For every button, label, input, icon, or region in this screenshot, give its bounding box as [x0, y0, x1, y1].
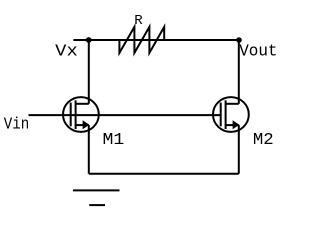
- wire M1 source vertical down: [88, 125, 90, 174]
- svg-text:M2: M2: [253, 131, 274, 150]
- svg-text:Vin: Vin: [4, 115, 30, 134]
- node Vx junction dot: [86, 37, 92, 43]
- wire M2 source vertical down: [238, 125, 240, 174]
- wire top net: Vx stub through R to Vout corner: [73, 39, 239, 41]
- svg-text:Vx: Vx: [55, 42, 78, 61]
- svg-text:M1: M1: [103, 131, 125, 150]
- transistor M1 (NMOS): [63, 97, 99, 132]
- wire gate net: Vin to M2 gate (passes through M1): [29, 114, 221, 116]
- transistor M2 (NMOS): [213, 97, 249, 132]
- ground symbol: [73, 190, 120, 205]
- wire bottom net (M1 source to M2 source): [89, 173, 239, 175]
- node Vout junction dot: [236, 37, 242, 43]
- svg-text:R: R: [134, 13, 143, 29]
- wire M2 drain vertical (Vout dot down into M2): [238, 40, 240, 104]
- resistor R (sawtooth body): [119, 27, 164, 53]
- wire M1 drain vertical (Vx dot down into M1): [88, 40, 90, 104]
- svg-text:Vout: Vout: [239, 42, 277, 61]
